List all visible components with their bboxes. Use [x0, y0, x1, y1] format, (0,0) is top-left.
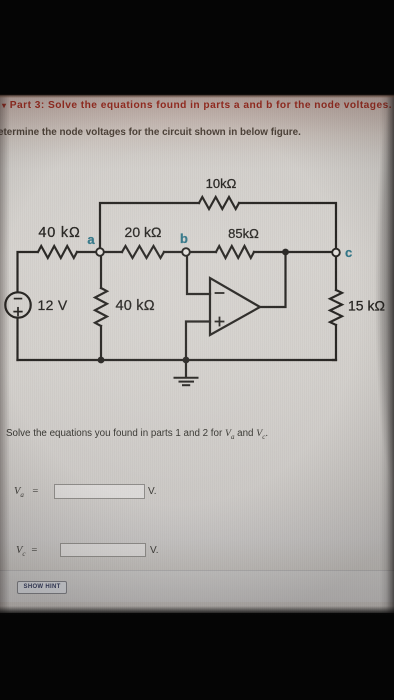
junction: output to rail: [282, 249, 289, 256]
wire: source bottom to bottom rail: [16, 318, 18, 360]
header row: Part 3: [2, 100, 394, 111]
wire: R 20k to node b: [164, 251, 183, 253]
wire: bottom rail: [18, 359, 337, 361]
voltage source V1 12V circle: [5, 292, 30, 317]
wire: node a up to top rail: [100, 203, 199, 252]
instruction line: [0, 127, 301, 138]
wire: R 85k past output junction to node c: [254, 251, 333, 253]
ground symbol: [175, 360, 198, 385]
resistor R 85k: [216, 246, 254, 258]
question text: [6, 428, 268, 441]
wire: top rail right and down to node c: [239, 203, 336, 249]
wire: R 15k to bottom rail corner: [333, 325, 336, 360]
wire: node b down to inverting input: [187, 255, 210, 294]
wire: R 40k vertical to bottom rail: [100, 326, 102, 360]
node c terminal circle: [332, 249, 340, 257]
wire: op-amp output right then up to junction on rail: [260, 252, 286, 307]
source plus sign: [14, 308, 22, 316]
resistor R 20k: [122, 246, 164, 258]
wire: node a to R 20k: [103, 251, 122, 253]
wire: node b to R 85k: [189, 251, 216, 253]
resistor R 40k (vertical): [95, 288, 107, 326]
wire: left corner to R 40k horizontal: [18, 252, 38, 292]
op-amp minus label: [216, 292, 224, 294]
resistor R 10k (top feedback): [199, 197, 239, 209]
Vc answer row: [16, 545, 38, 558]
show hint button: [17, 581, 68, 595]
wire: node a down to R 40k vertical: [100, 255, 102, 288]
junction: 40k vertical at bottom rail: [98, 357, 105, 364]
source minus sign: [15, 298, 22, 300]
Va answer row: [14, 486, 39, 499]
op-amp U1 triangle: [210, 278, 260, 335]
resistor R 15k (vertical): [330, 290, 342, 325]
junction: ground at bottom rail: [183, 357, 190, 364]
wire: node c down to R 15k: [335, 256, 337, 290]
op-amp plus label: [216, 318, 224, 326]
wire: non-inverting input to bottom rail: [186, 322, 210, 361]
node a terminal circle: [96, 248, 104, 256]
resistor R 40k (horizontal, left): [38, 246, 77, 258]
wire: R 40k to node a: [77, 251, 97, 253]
node b terminal circle: [182, 248, 190, 256]
